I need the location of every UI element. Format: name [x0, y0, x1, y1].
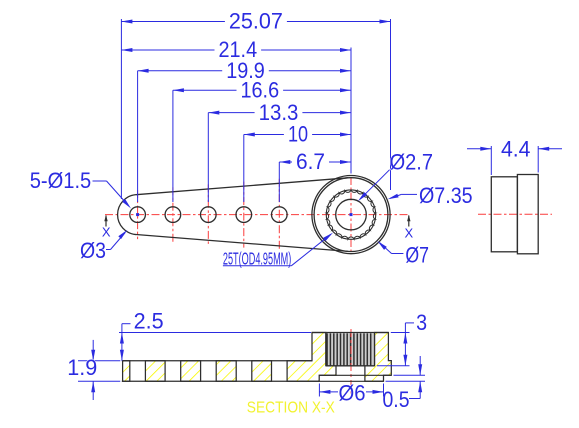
svg-text:10: 10 [288, 122, 308, 147]
svg-text:25.07: 25.07 [229, 9, 283, 34]
svg-text:2.5: 2.5 [134, 308, 164, 333]
svg-text:3: 3 [416, 310, 427, 335]
svg-text:Ø6: Ø6 [339, 381, 366, 406]
svg-text:Ø7.35: Ø7.35 [419, 183, 473, 208]
svg-text:X: X [102, 225, 111, 240]
svg-text:6.7: 6.7 [296, 149, 325, 174]
svg-text:Ø3: Ø3 [80, 238, 106, 263]
svg-text:16.6: 16.6 [241, 77, 280, 102]
svg-text:1.9: 1.9 [67, 355, 97, 380]
svg-text:SECTION X-X: SECTION X-X [247, 400, 336, 417]
svg-text:X: X [404, 226, 413, 241]
svg-text:Ø7: Ø7 [405, 242, 429, 267]
svg-text:5-Ø1.5: 5-Ø1.5 [30, 168, 92, 193]
svg-text:4.4: 4.4 [501, 136, 531, 161]
svg-text:0.5: 0.5 [383, 387, 410, 412]
svg-text:Ø2.7: Ø2.7 [390, 149, 433, 174]
